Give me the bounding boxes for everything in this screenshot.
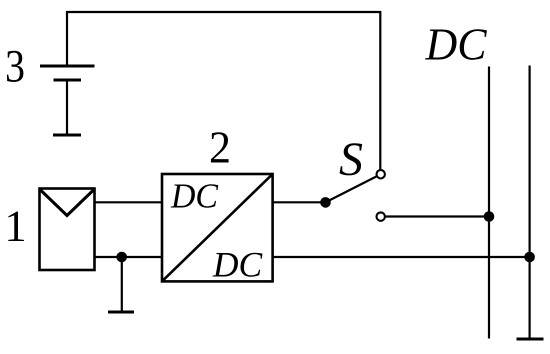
svg-text:2: 2 — [209, 122, 231, 173]
svg-text:DC: DC — [170, 177, 219, 216]
svg-text:DC: DC — [425, 19, 488, 70]
svg-text:S: S — [339, 133, 363, 186]
svg-text:3: 3 — [5, 41, 25, 93]
svg-text:1: 1 — [4, 201, 26, 251]
svg-text:DC: DC — [212, 245, 263, 285]
